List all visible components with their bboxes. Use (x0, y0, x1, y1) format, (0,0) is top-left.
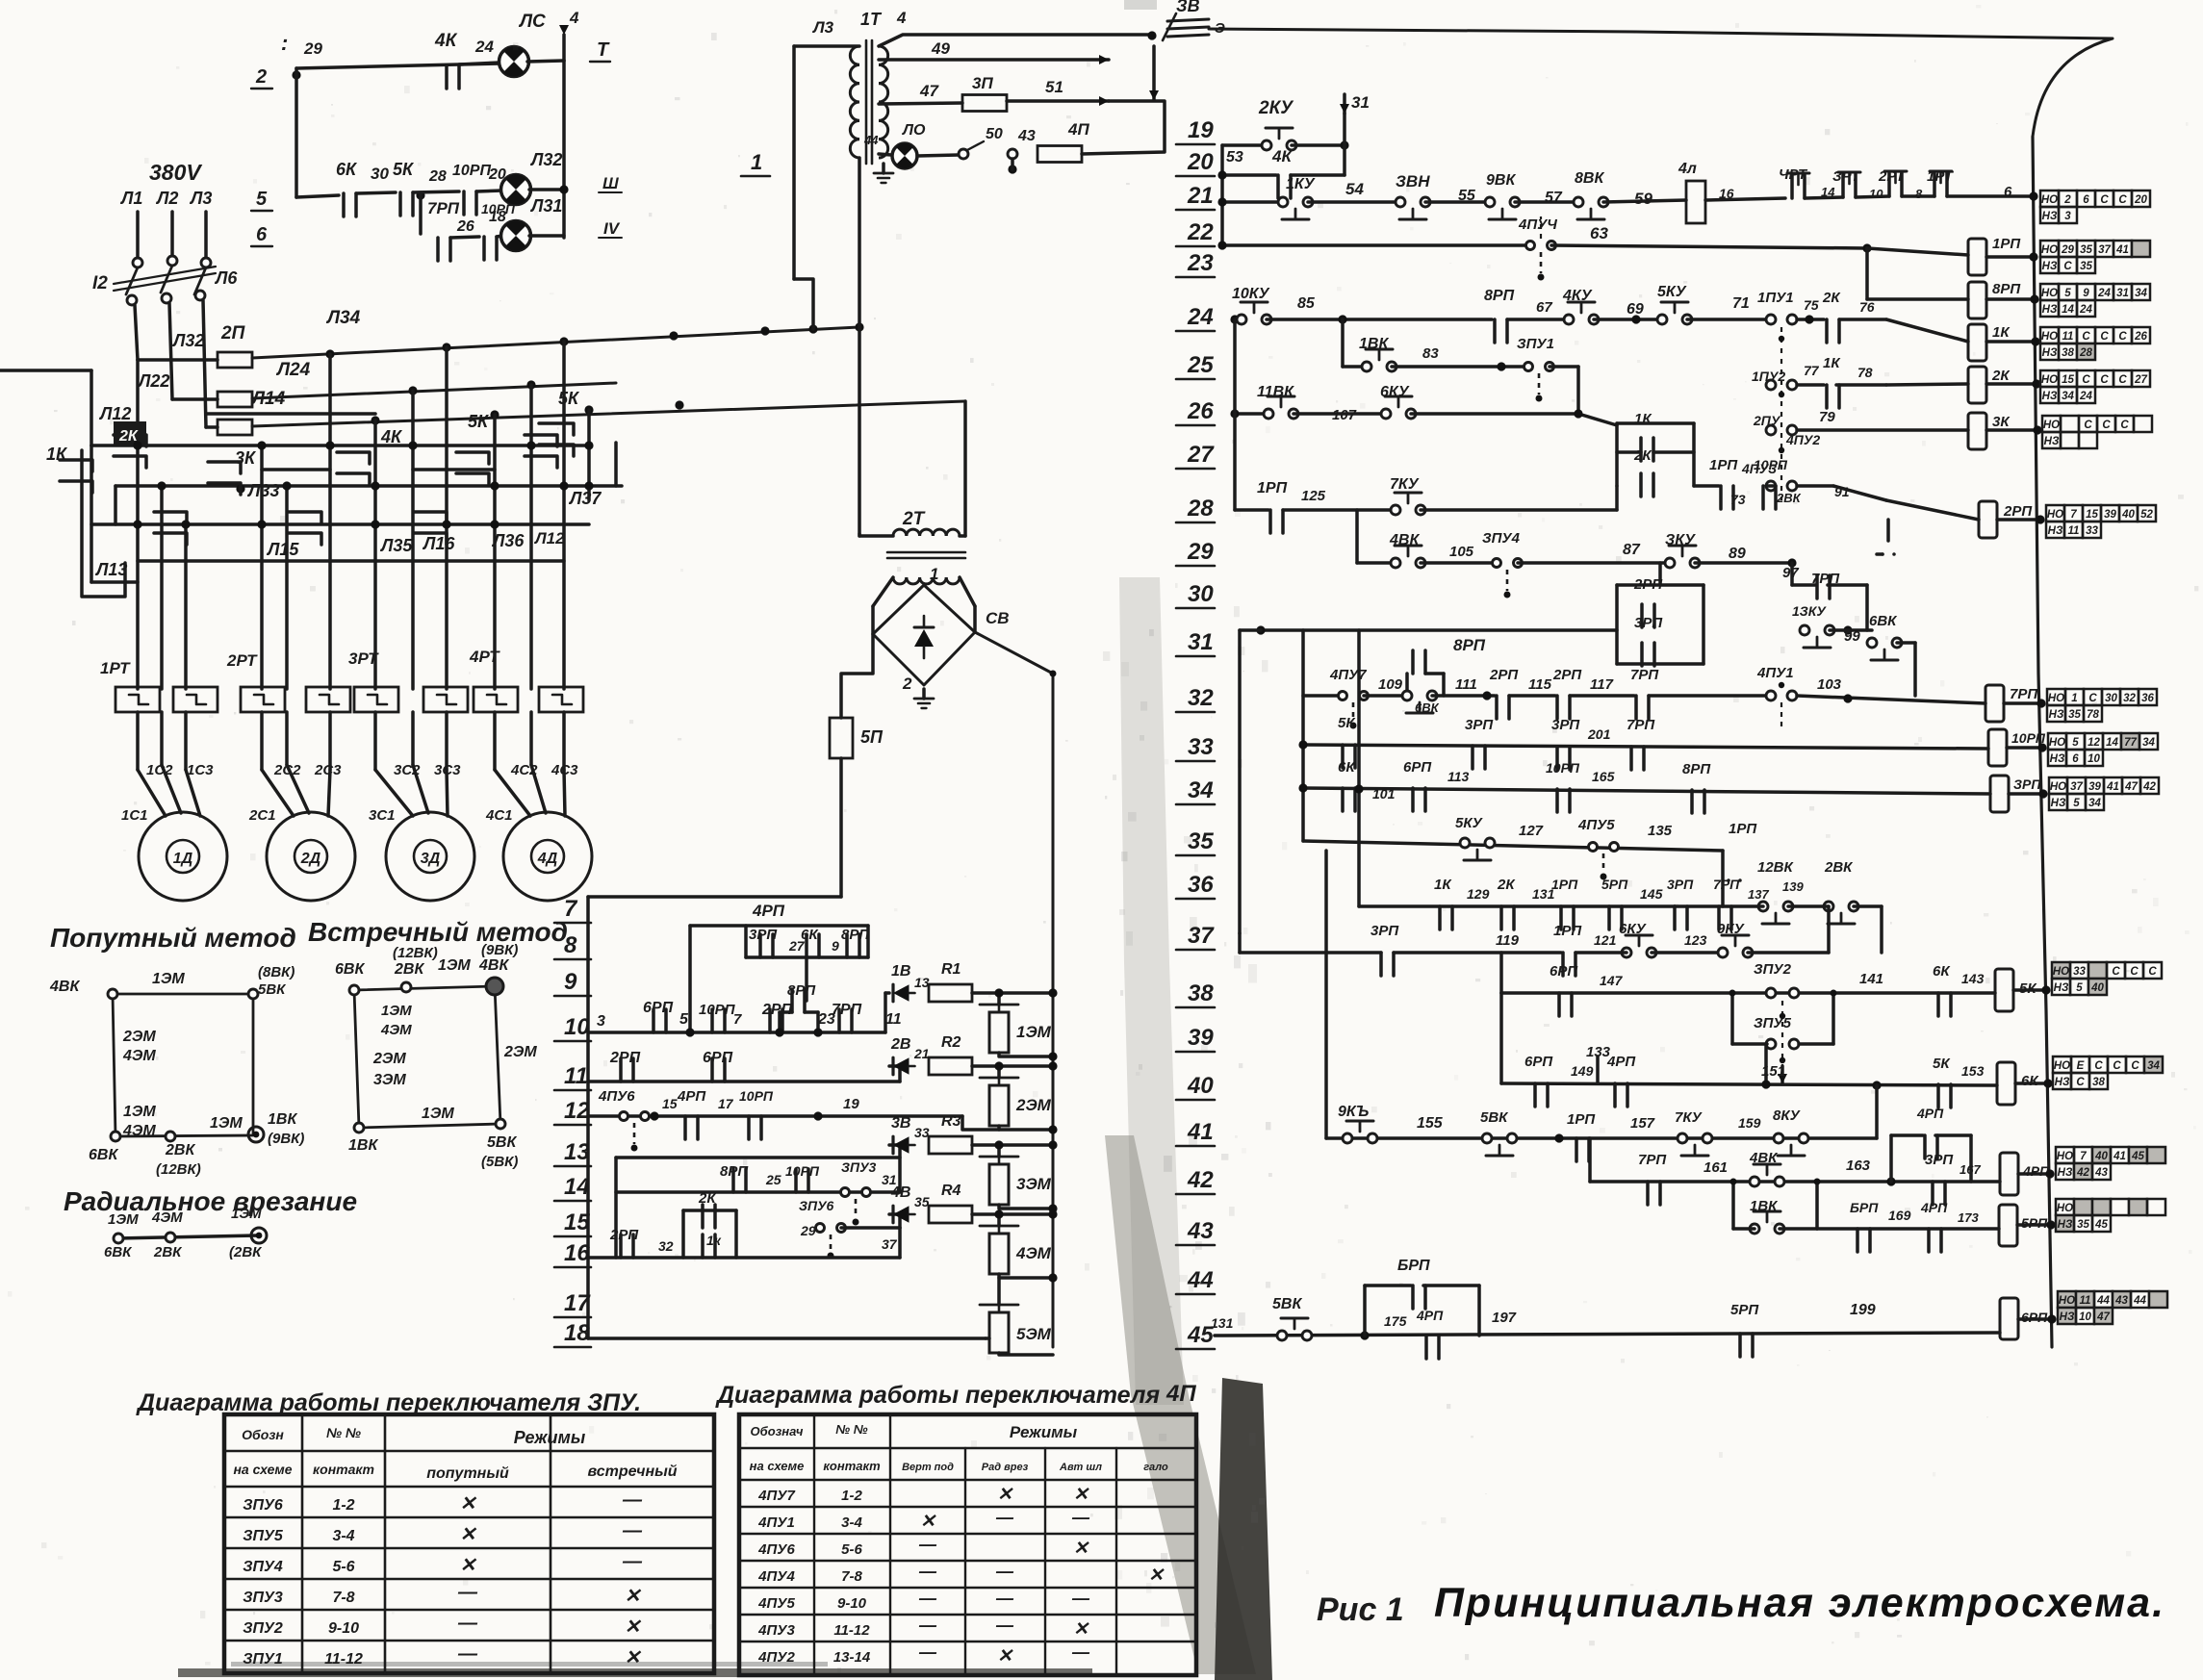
table1 vline (301, 1414, 304, 1673)
svg-text:9: 9 (564, 969, 577, 995)
button 1VK (1362, 362, 1371, 371)
switch 3PU6 (816, 1224, 825, 1233)
svg-text:встречный: встречный (587, 1464, 677, 1480)
breaker lower circle L3 (195, 291, 205, 300)
svg-text:5: 5 (256, 189, 268, 210)
terminal block at y340 (2040, 327, 2059, 344)
svg-text:3К: 3К (235, 448, 257, 468)
svg-text:33: 33 (2086, 525, 2098, 537)
svg-text:97: 97 (1782, 565, 1799, 581)
junction L33 (236, 484, 244, 493)
svg-text:2ВК: 2ВК (394, 961, 424, 978)
terminal block at y432 (2042, 416, 2061, 432)
fuse 3P (962, 95, 1007, 112)
svg-text:3С1: 3С1 (369, 807, 396, 824)
svg-text:С: С (2100, 331, 2109, 343)
svg-text:2В: 2В (890, 1036, 910, 1053)
vert r29-box (1658, 563, 1662, 585)
svg-text:✕: ✕ (460, 1493, 477, 1515)
svg-text:34: 34 (1188, 777, 1214, 803)
contact 6K (342, 193, 346, 216)
radial end marker (251, 1228, 267, 1243)
svg-text:✕: ✕ (997, 1485, 1013, 1505)
svg-text:1К: 1К (1434, 877, 1452, 893)
contact 5RP r45 (1738, 1334, 1742, 1357)
svg-text:26: 26 (456, 218, 474, 235)
wire bus2 top (295, 68, 298, 75)
contact 6RP r44 (1411, 1285, 1415, 1309)
svg-text:1Т: 1Т (860, 10, 883, 29)
motor phase wire x298 (285, 486, 289, 689)
svg-text:ЗПУ1: ЗПУ1 (1517, 336, 1554, 352)
2EM top tie (997, 1066, 1001, 1078)
svg-text:13: 13 (564, 1139, 590, 1165)
svg-text:ЗПУ1: ЗПУ1 (243, 1651, 283, 1667)
svg-text:НО: НО (2054, 1060, 2070, 1072)
label 2K (114, 421, 146, 446)
3EM bottom (999, 1205, 1053, 1209)
junction below switch (1008, 165, 1016, 173)
svg-text:3П: 3П (972, 74, 993, 92)
svg-text:ЗПУ6: ЗПУ6 (243, 1497, 283, 1514)
row21 wire segments (1222, 200, 1283, 204)
svg-text:НЗ: НЗ (2060, 1311, 2075, 1323)
svg-text:4К: 4К (1271, 147, 1293, 165)
svg-text:НЗ: НЗ (2051, 798, 2066, 809)
svg-text:на схеме: на схеме (750, 1459, 805, 1473)
svg-text:6РП: 6РП (1524, 1054, 1553, 1070)
svg-text:8РП: 8РП (1484, 288, 1515, 304)
row10 wire (588, 1031, 885, 1034)
svg-text:2ВК: 2ВК (165, 1142, 195, 1158)
clutch 1EM (980, 1004, 1018, 1006)
bus L24 junction (526, 380, 535, 389)
svg-text:1РП: 1РП (1553, 923, 1582, 939)
svg-text:ЗРТ: ЗРТ (1832, 168, 1861, 185)
svg-text:7РП: 7РП (832, 1002, 862, 1018)
contact 10RP (462, 191, 466, 215)
svg-text:3С2: 3С2 (394, 762, 421, 778)
contact 2RP r30 (1640, 604, 1644, 627)
contact 2K r27 (1639, 473, 1643, 496)
bus L14 junction (371, 416, 379, 424)
svg-text:4ПУ2: 4ПУ2 (757, 1649, 795, 1666)
contact 5RP r36 (1607, 906, 1611, 929)
contact 1K r27 (1639, 438, 1643, 461)
svg-text:БРП: БРП (1397, 1258, 1430, 1274)
branch down from 28 (419, 195, 423, 234)
button 9KU r41 (1343, 1133, 1352, 1143)
vert 133 (1596, 1056, 1600, 1083)
svg-text:41: 41 (2115, 244, 2129, 256)
wire coil-rail 8RP (1986, 297, 2035, 301)
motor phase wire x464 (445, 347, 448, 689)
svg-text:33: 33 (914, 1125, 930, 1140)
svg-text:НО: НО (2057, 1203, 2073, 1214)
svg-text:1ЭМ: 1ЭМ (123, 1104, 156, 1120)
svg-text:127: 127 (1519, 823, 1544, 839)
svg-text:11-12: 11-12 (833, 1622, 870, 1639)
motor 3Д outer circle (386, 812, 474, 901)
svg-text:24: 24 (474, 38, 494, 56)
wire 2KU right (1292, 143, 1345, 147)
r27 mid wire (1617, 450, 1641, 454)
radial circles (114, 1234, 123, 1243)
phase L2 stub (170, 212, 174, 256)
svg-text:ЗПУ2: ЗПУ2 (1754, 961, 1792, 978)
right lamp rail (562, 61, 566, 238)
motor 2Д outer circle (267, 812, 355, 901)
left vert2 r31-35 (1301, 630, 1305, 841)
svg-text:2: 2 (2063, 194, 2071, 206)
wire r24 (1267, 318, 1492, 321)
svg-text:(2ВК: (2ВК (229, 1244, 263, 1260)
svg-text:2ЭМ: 2ЭМ (122, 1029, 156, 1045)
fuse 2P-3 (218, 420, 252, 435)
svg-text:4РП: 4РП (1920, 1200, 1948, 1215)
svg-text:2КУ: 2КУ (1258, 98, 1294, 118)
diode 3V (893, 1136, 909, 1154)
svg-text:ЗПУ3: ЗПУ3 (841, 1159, 877, 1175)
svg-text:2К: 2К (1497, 877, 1516, 893)
svg-text:2Д: 2Д (300, 851, 321, 867)
svg-text:40: 40 (1187, 1073, 1214, 1099)
poputny square (113, 994, 253, 1136)
svg-text:27: 27 (1187, 442, 1215, 468)
button 10KU (1237, 315, 1246, 324)
button 6KU r37 (1622, 948, 1631, 957)
svg-text:✕: ✕ (625, 1586, 642, 1607)
svg-text:28: 28 (428, 168, 447, 185)
bridge rectifier diamond (873, 585, 975, 685)
wire coil-rail (1986, 255, 2034, 259)
svg-text:6К: 6К (1933, 963, 1951, 980)
wire (1507, 318, 1569, 321)
svg-text:✕: ✕ (1148, 1565, 1165, 1586)
svg-text:1РТ: 1РТ (100, 659, 131, 677)
phase L3 down (203, 300, 206, 427)
svg-text:38: 38 (2092, 1077, 2105, 1088)
svg-text:42: 42 (2142, 781, 2156, 793)
wire to L31 (497, 236, 502, 237)
svg-text:С: С (2120, 420, 2129, 431)
wire r32 (1364, 694, 1407, 698)
svg-text:5: 5 (2064, 288, 2071, 299)
svg-text::: : (281, 31, 288, 55)
vert 3PU5 down (1764, 1044, 1768, 1083)
button 4KU (1564, 315, 1574, 324)
dots r12 (650, 1111, 658, 1120)
button 4VK r42 (1750, 1177, 1759, 1186)
contact 1RP r27 (1719, 486, 1723, 509)
svg-text:6: 6 (256, 224, 268, 245)
svg-text:Л3: Л3 (811, 18, 834, 37)
contact 1RP r41 (1575, 1138, 1578, 1161)
svg-text:6: 6 (2072, 753, 2079, 765)
svg-text:28: 28 (1187, 496, 1214, 522)
fuse 2P-2 (218, 392, 252, 407)
svg-text:23: 23 (1187, 250, 1214, 276)
svg-text:45: 45 (2131, 1151, 2144, 1162)
svg-text:Попутный метод: Попутный метод (50, 923, 296, 953)
svg-text:Е: Е (2077, 1060, 2085, 1072)
svg-text:24: 24 (2079, 391, 2092, 402)
bridge right out (975, 632, 1053, 1347)
svg-text:37: 37 (2098, 244, 2111, 256)
5EM top tie (997, 1278, 1001, 1305)
switch 4PU4 r22 (1526, 242, 1535, 250)
fuse 4P (1037, 146, 1082, 163)
bus L34 junction (559, 337, 568, 345)
diode 4V (893, 1206, 909, 1223)
svg-text:41: 41 (2113, 1151, 2126, 1162)
svg-text:20: 20 (2134, 194, 2147, 206)
contact 8RP r34 (1690, 790, 1694, 813)
svg-text:1: 1 (930, 565, 938, 583)
bundle ZV (1167, 19, 1209, 21)
svg-text:Л37: Л37 (568, 489, 602, 508)
svg-text:125: 125 (1301, 488, 1326, 504)
wire R3 to bus (972, 1143, 1053, 1147)
dot r40 (1761, 1080, 1770, 1088)
svg-text:201: 201 (1587, 726, 1611, 742)
svg-text:1ЭМ: 1ЭМ (231, 1206, 262, 1222)
coil 10RP (1988, 729, 2007, 766)
4PU1 dash (1780, 702, 1782, 731)
svg-text:2ВК: 2ВК (1824, 859, 1854, 876)
phase L1 down (135, 305, 138, 360)
svg-text:13-14: 13-14 (833, 1649, 871, 1666)
wire to coil 1K (1839, 318, 1886, 321)
5EM bottom tie (999, 1353, 1053, 1355)
1T secondary winding (879, 46, 888, 64)
svg-text:—: — (995, 1562, 1014, 1581)
svg-text:Л32: Л32 (529, 150, 562, 169)
switch 4PU6 (620, 1112, 628, 1121)
svg-text:3РП: 3РП (1925, 1152, 1954, 1168)
bridge diode symbol (914, 629, 934, 647)
table1 hline (224, 1450, 714, 1453)
svg-text:155: 155 (1417, 1115, 1444, 1132)
wire L32 right (529, 188, 564, 191)
terminal block at y1342 (2058, 1291, 2076, 1308)
r30 box 2RP/3RP (1615, 585, 1619, 664)
svg-text:12: 12 (2088, 737, 2100, 749)
svg-text:2РП: 2РП (609, 1227, 639, 1243)
contact 2RP r10 (768, 1009, 772, 1032)
svg-text:✕: ✕ (1073, 1539, 1089, 1559)
row13 box top (616, 1156, 900, 1159)
svg-text:5ВК: 5ВК (487, 1134, 517, 1151)
svg-text:6РП: 6РП (1550, 963, 1578, 980)
wire to 2RP coil (1833, 486, 1886, 500)
svg-text:—: — (918, 1562, 937, 1581)
wire (1687, 318, 1767, 321)
vert r35-36 (1721, 851, 1725, 906)
svg-text:1ЭМ: 1ЭМ (210, 1115, 243, 1132)
contact 6RP r10 (652, 1009, 655, 1032)
coil 7RP (1985, 685, 2004, 722)
svg-text:ЗПУ3: ЗПУ3 (243, 1590, 283, 1606)
svg-text:11: 11 (2080, 1295, 2091, 1307)
svg-text:С: С (2100, 194, 2109, 206)
svg-text:3РП: 3РП (1634, 615, 1663, 631)
lamp LS (500, 47, 529, 77)
svg-text:5К: 5К (1933, 1056, 1951, 1072)
contact 2K r36 (1499, 906, 1503, 929)
row32 wire (1303, 694, 1343, 698)
table2 vline (813, 1414, 815, 1675)
junction dot 28 (416, 191, 424, 199)
svg-text:7: 7 (733, 1011, 742, 1028)
svg-text:4ЭМ: 4ЭМ (122, 1048, 156, 1064)
contact 1K r16 (701, 1235, 704, 1258)
svg-text:4ПУ2: 4ПУ2 (1785, 432, 1820, 447)
contact 6RP r40 (1533, 1083, 1537, 1107)
extra mesh horizontals (206, 412, 375, 416)
wire coil-rail 5K (2013, 988, 2046, 992)
svg-text:10: 10 (564, 1014, 590, 1040)
svg-text:Л34: Л34 (325, 308, 361, 328)
svg-text:1ЭМ: 1ЭМ (152, 971, 185, 987)
svg-text:87: 87 (1623, 542, 1641, 558)
svg-text:76: 76 (1859, 299, 1875, 315)
row9 wire (746, 955, 868, 959)
svg-text:С: С (2084, 420, 2092, 431)
svg-text:✕: ✕ (460, 1555, 477, 1576)
svg-text:2РТ: 2РТ (1878, 168, 1907, 185)
svg-text:6КУ: 6КУ (1619, 921, 1648, 937)
svg-text:10РП: 10РП (739, 1088, 774, 1104)
svg-text:4ВК: 4ВК (478, 957, 509, 974)
contact 2K r15 (701, 1205, 704, 1228)
svg-text:15: 15 (662, 1096, 678, 1111)
wire thermal joins (1805, 197, 1843, 198)
contactor 2K hooks (114, 435, 146, 446)
motor 1Д outer circle (139, 812, 227, 901)
svg-text:С: С (2088, 693, 2097, 704)
svg-text:СВ: СВ (986, 609, 1010, 627)
svg-text:4ВК: 4ВК (1749, 1150, 1779, 1166)
svg-text:4ЭМ: 4ЭМ (122, 1123, 156, 1139)
row40 wire (1501, 1083, 1997, 1085)
top feed wire right (1209, 29, 2113, 38)
vstrechny square (354, 986, 500, 1128)
svg-text:4ПУ1: 4ПУ1 (1756, 665, 1794, 681)
svg-text:35: 35 (914, 1194, 930, 1209)
bus L14 junction (675, 400, 683, 409)
switch 4PU4 dash up (1540, 216, 1542, 239)
svg-text:31: 31 (1351, 93, 1370, 112)
row14 wire (616, 1190, 900, 1194)
svg-text:1ЭМ: 1ЭМ (1016, 1023, 1052, 1041)
svg-text:42: 42 (1187, 1167, 1214, 1193)
svg-text:78: 78 (1857, 365, 1873, 380)
terminal block at y295 (2040, 284, 2059, 300)
svg-text:1ЭМ: 1ЭМ (108, 1211, 139, 1228)
button 2VK (1824, 902, 1833, 911)
svg-text:3РП: 3РП (749, 927, 778, 943)
4RP inner vert (744, 926, 748, 957)
svg-text:123: 123 (1684, 932, 1707, 948)
svg-text:75: 75 (1804, 297, 1819, 313)
wire (356, 192, 396, 193)
wire r37 right (1748, 951, 1829, 955)
svg-text:3-4: 3-4 (841, 1515, 862, 1531)
svg-text:С: С (2112, 966, 2120, 978)
wire r29 long (1518, 561, 1670, 565)
svg-text:—: — (918, 1589, 937, 1608)
wire r27 to 4PU3 (1767, 484, 1776, 488)
svg-text:3ЭМ: 3ЭМ (373, 1072, 406, 1088)
svg-text:4ЭМ: 4ЭМ (380, 1022, 412, 1038)
svg-text:9: 9 (832, 938, 839, 954)
4EM top tie (997, 1214, 1001, 1226)
svg-text:85: 85 (1297, 295, 1316, 312)
wire btns (1675, 904, 1763, 908)
svg-text:3РП: 3РП (1465, 717, 1494, 733)
svg-text:67: 67 (1536, 299, 1552, 316)
wire 8RP mid (780, 1010, 792, 1014)
motor phase wire x168 (160, 486, 164, 689)
svg-text:5К: 5К (393, 160, 415, 179)
svg-text:11ВК: 11ВК (1257, 384, 1294, 400)
svg-text:2ЭМ: 2ЭМ (503, 1044, 537, 1060)
table1 vline (550, 1414, 552, 1673)
svg-text:ЗПУ4: ЗПУ4 (1482, 530, 1521, 547)
row20 wire (1222, 173, 1276, 177)
wire coil-rail 3K (1986, 428, 2037, 432)
svg-text:47: 47 (2124, 781, 2138, 793)
svg-text:5К: 5К (468, 412, 490, 431)
button 1KU (1278, 197, 1288, 207)
svg-text:129: 129 (1467, 886, 1490, 902)
svg-text:6КУ: 6КУ (1380, 384, 1410, 400)
svg-text:—: — (1071, 1508, 1090, 1527)
svg-text:153: 153 (1961, 1063, 1985, 1079)
svg-text:8РП: 8РП (1682, 761, 1711, 777)
table1 hline (224, 1578, 714, 1581)
svg-text:4ПУЧ: 4ПУЧ (1518, 216, 1557, 233)
svg-text:1Д: 1Д (173, 851, 193, 867)
scan speckle noise (1403, 42, 1406, 46)
svg-text:—: — (995, 1508, 1014, 1527)
svg-text:5РП: 5РП (1730, 1302, 1759, 1318)
wire L2 to fuse2 (172, 397, 218, 401)
button 2KU (1262, 140, 1271, 150)
dot (1048, 988, 1057, 997)
svg-text:159: 159 (1738, 1115, 1761, 1131)
contact 1RP r37 (1561, 953, 1565, 976)
switch circle 2 (1008, 149, 1017, 159)
svg-text:101: 101 (1372, 786, 1396, 802)
breaker linkage bar (114, 273, 216, 291)
svg-text:6РП: 6РП (1403, 759, 1432, 776)
dot r31 (1843, 625, 1852, 634)
svg-text:3: 3 (597, 1013, 605, 1030)
svg-text:78: 78 (2087, 709, 2099, 721)
button 9KU r37 (1718, 948, 1728, 957)
thermal 2RT (1887, 173, 1891, 196)
svg-text:29: 29 (303, 39, 322, 58)
tap 47 wire (879, 103, 962, 104)
svg-text:35: 35 (2077, 1219, 2089, 1231)
box2 left vert (614, 1158, 618, 1258)
svg-text:3К: 3К (1992, 414, 2011, 430)
svg-text:41: 41 (2106, 781, 2119, 793)
svg-text:31: 31 (1188, 629, 1214, 655)
wire to 1RP coil (1867, 248, 1968, 255)
